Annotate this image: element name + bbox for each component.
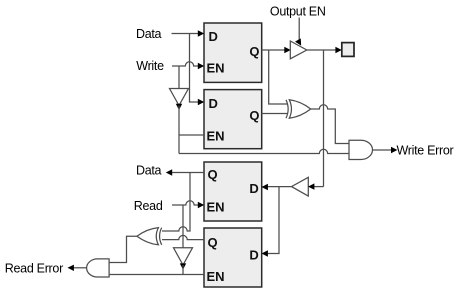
arrow into U1.EN: [198, 63, 204, 69]
svg-text:EN: EN: [207, 269, 225, 284]
svg-text:Data: Data: [136, 163, 162, 177]
wire Write to U1.EN (hops over Data branch): [172, 62, 198, 66]
inverter U8 (read enable inverter): [174, 248, 193, 265]
arrow into U3.D: [262, 184, 268, 190]
svg-text:Data: Data: [136, 27, 162, 41]
wire Data branch down to XOR G3 (hops over Read branch): [162, 173, 190, 232]
arrow into U6 input: [308, 183, 314, 189]
wire Write branch down to inverter U7: [178, 66, 180, 89]
XOR gate G3 (read compare, points left): [137, 228, 162, 245]
wire U8 output down: [182, 265, 184, 275]
arrow Read Error out: [68, 265, 74, 271]
inverter U7 (write enable inverter): [170, 89, 189, 106]
svg-text:EN: EN: [207, 200, 225, 215]
latch U4 (read check latch): [204, 228, 262, 287]
wire U5 output to pad: [307, 49, 336, 51]
svg-text:D: D: [209, 96, 218, 111]
latch U3 (read data latch): [204, 162, 262, 221]
wire G4 output: [74, 267, 88, 269]
svg-text:EN: EN: [207, 61, 225, 76]
wire Data to U1.D: [172, 33, 199, 35]
svg-text:Read: Read: [134, 199, 163, 213]
svg-text:D: D: [209, 29, 218, 44]
svg-text:Q: Q: [208, 235, 218, 250]
I/O pad square: [342, 43, 354, 57]
svg-text:EN: EN: [207, 129, 225, 144]
wire U3.Q to Data out: [172, 172, 204, 174]
wire Data branch down to U2.D: [190, 34, 199, 103]
arrow into U1.D: [198, 30, 204, 36]
svg-text:Write: Write: [136, 59, 164, 73]
wire U2.Q to XOR G1: [262, 113, 287, 115]
arrow Write Error: [391, 147, 397, 153]
wire Read branch down to inverter U8: [182, 205, 184, 248]
arrow at U7 output: [176, 104, 182, 110]
buffer U6 (input buffer, points left): [292, 177, 309, 196]
latch U2 (write check latch): [204, 90, 262, 149]
AND gate G2 (Write Error): [349, 140, 373, 159]
wire stub into U2.EN: [179, 134, 204, 136]
wire trunk into U6: [314, 186, 323, 188]
wire G3 output to AND G4: [109, 236, 137, 262]
wire notWrite to AND G2 (hops over trunk): [179, 149, 349, 153]
wire trunk from pad node down to U6: [323, 50, 325, 187]
arrow into U3.EN: [198, 202, 204, 208]
arrow into U4.D: [262, 250, 268, 256]
AND gate G4 (Read Error, points left): [87, 259, 110, 277]
wire U4.Q to XOR G3 (hops over Read branch): [162, 235, 204, 239]
wire U1.Q branch down to XOR G1: [269, 50, 287, 104]
arrow into pad: [335, 47, 341, 53]
svg-text:Q: Q: [249, 108, 259, 123]
tri-state buffer U5: [290, 41, 307, 59]
svg-text:Output EN: Output EN: [270, 4, 326, 18]
wire U7 output down: [178, 106, 180, 154]
arrow Data out: [166, 169, 172, 175]
svg-text:Q: Q: [249, 44, 259, 59]
svg-text:Write Error: Write Error: [397, 143, 454, 157]
svg-text:D: D: [249, 247, 258, 262]
svg-text:Q: Q: [208, 167, 218, 182]
svg-text:D: D: [249, 181, 258, 196]
wire branch down to U4.D: [268, 187, 280, 254]
arrow at U8 output: [180, 263, 186, 269]
wire notRead net: AND G4 to U4.EN: [109, 274, 204, 276]
latch U1 (write data latch): [204, 23, 262, 82]
arrow into U5 input: [284, 47, 290, 53]
arrow Output EN into U5: [295, 38, 304, 47]
arrow into U2.D: [198, 99, 204, 105]
svg-text:Read Error: Read Error: [5, 261, 63, 275]
wire U6 output to U3.D: [268, 186, 292, 188]
wire G1 output to AND G2 (hops over trunk): [311, 105, 349, 144]
wire Output EN down to U5 enable: [298, 18, 300, 41]
wire G2 output: [373, 149, 392, 151]
XOR gate G1 (write compare): [286, 100, 311, 118]
wire U1.Q to tri-state buffer U5: [262, 49, 285, 51]
wire Read to U3.EN (hops over Data branch): [172, 201, 198, 205]
